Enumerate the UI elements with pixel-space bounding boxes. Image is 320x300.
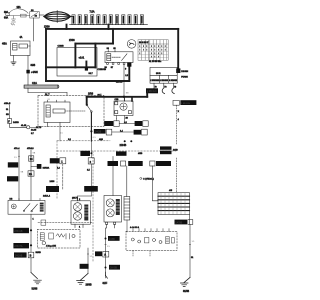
accessory dashed box bottom right (126, 232, 177, 251)
svg-text:2A: 2A (29, 173, 32, 176)
svg-text:2/4GB: 2/4GB (95, 132, 102, 134)
svg-text:AL 30 86 86+: AL 30 86 86+ (149, 60, 162, 63)
fan switch unit (8, 200, 45, 214)
svg-text:C2B: C2B (115, 99, 120, 101)
blower motor right (104, 196, 122, 223)
switch box thick frame (74, 44, 76, 68)
svg-text:24.2B: 24.2B (31, 130, 37, 132)
svg-text:GN/SB: GN/SB (110, 268, 118, 270)
svg-text:2/R8: 2/R8 (88, 93, 94, 96)
relay coil unit (44, 102, 70, 123)
svg-text:3GB: 3GB (31, 65, 36, 67)
svg-text:A: A (104, 253, 106, 257)
svg-text:1 RD/GN: 1 RD/GN (147, 90, 157, 93)
relay pins bottom (107, 63, 109, 65)
junction 2/24B (124, 140, 126, 142)
svg-text:2X08: 2X08 (69, 39, 75, 42)
terminal blob relay 30 (127, 62, 131, 66)
wire below switch (30, 214, 32, 252)
svg-text:2A78B: 2A78B (175, 221, 182, 224)
relay pins top 86 85 (108, 50, 115, 52)
wire relay to connector (27, 56, 29, 70)
accessory dashed box bottom left (38, 222, 93, 224)
wiring loom lens 2X09 (44, 11, 74, 23)
connector 24X08 24X09 (160, 146, 172, 149)
svg-text:+4/GN: +4/GN (31, 72, 38, 74)
splice labels bottom center (105, 238, 107, 240)
terminal blob right (176, 68, 180, 73)
svg-text:2/24B: 2/24B (120, 143, 127, 147)
svg-text:4 Mag 4/35: 4 Mag 4/35 (46, 246, 57, 248)
svg-text:4/5A: 4/5A (2, 43, 7, 46)
wire bus to right terminal (177, 29, 179, 69)
svg-text:1 RD/GN: 1 RD/GN (169, 80, 178, 82)
svg-text:31/9B: 31/9B (183, 291, 189, 293)
svg-text:C/20B: C/20B (58, 46, 65, 48)
svg-text:47A.4: 47A.4 (14, 147, 20, 150)
heater pin down (189, 215, 191, 225)
ground stub left relay (13, 56, 15, 62)
svg-text:60A: 60A (4, 17, 9, 20)
ground bottom left (30, 258, 32, 273)
svg-text:30 86 85 87: 30 86 85 87 (139, 42, 149, 44)
wire to loom (39, 14, 44, 16)
svg-text:+1A1: +1A1 (79, 56, 85, 59)
svg-text:(9/17): (9/17) (72, 198, 78, 200)
svg-text:4 4 4 8 8 4: 4 4 4 8 8 4 (130, 227, 139, 229)
connector row 2/4MB (108, 161, 119, 166)
generator symbol G (127, 40, 136, 49)
relay 2/30 (105, 52, 133, 63)
pump unit 2/33 (131, 97, 133, 101)
hooked wire ends (162, 88, 164, 94)
svg-text:4/5B: 4/5B (138, 153, 143, 155)
switch contact (86, 104, 88, 106)
wire switch output (90, 112, 92, 141)
splice label (146, 88, 158, 93)
svg-text:23341B: 23341B (14, 230, 23, 233)
svg-text:P5/GN: P5/GN (181, 77, 188, 79)
dashed harness boundary (57, 150, 176, 152)
misc wire labels (14, 92, 195, 258)
ground path bottom center-left (87, 248, 89, 274)
wire riser to relay pin 30 (128, 66, 130, 81)
svg-text:30A: 30A (4, 11, 9, 14)
svg-text:DB/GN: DB/GN (181, 71, 188, 73)
svg-text:70: 70 (174, 87, 176, 89)
wire column x91 (90, 141, 92, 158)
connector block right (150, 67, 177, 83)
svg-text:16A: 16A (17, 6, 22, 9)
svg-text:7.5A: 7.5A (90, 11, 95, 14)
svg-text:C (VEDAL): C (VEDAL) (143, 177, 154, 180)
svg-text:24/3B: 24/3B (13, 122, 19, 124)
svg-text:29/9B: 29/9B (86, 284, 92, 286)
junction node (123, 96, 125, 98)
svg-text:24/1AB: 24/1AB (15, 254, 23, 257)
svg-text:2/DOM: 2/DOM (116, 82, 123, 84)
battery feed circuit top left (6, 9, 30, 25)
svg-text:70: 70 (164, 87, 166, 89)
svg-text:1 RD/GN: 1 RD/GN (160, 80, 169, 82)
pin table legend (138, 40, 168, 60)
svg-text:23347A: 23347A (14, 245, 23, 248)
terminal blob switch box (85, 67, 88, 70)
wire to switch box (75, 43, 113, 45)
relay K1 coil circuit left (11, 41, 31, 56)
wire bottom run to relay 30 (46, 80, 129, 82)
thick run to door switch (87, 93, 148, 104)
splice label (94, 129, 106, 134)
svg-text:70: 70 (155, 87, 157, 89)
wire fuse stub left (66, 25, 68, 29)
wire left drop x46 (45, 29, 47, 81)
svg-text:41.4B: 41.4B (21, 125, 27, 127)
right column connector (173, 100, 179, 105)
svg-text:4AB: 4AB (99, 138, 103, 141)
thick supply bus (46, 25, 178, 81)
wire ignition to relay 4A (33, 18, 35, 41)
ignition switch box 30/50 (30, 12, 39, 18)
svg-text:3/8 R: 3/8 R (156, 73, 161, 75)
connector blob +4/GN (26, 70, 29, 74)
wires down to blower (112, 156, 114, 195)
wire relay coil sense (123, 64, 125, 97)
svg-text:2456: 2456 (50, 181, 56, 183)
wire column x63 (60, 158, 66, 164)
ground wire right (189, 224, 191, 277)
wire to module (28, 92, 67, 94)
fuse box rail (70, 24, 148, 26)
svg-text:38/4B: 38/4B (36, 252, 42, 254)
connector 2/4CB pair (104, 121, 113, 126)
svg-text:1 RD/GN: 1 RD/GN (181, 103, 190, 105)
svg-text:B: B (30, 254, 32, 258)
svg-text:24/8B: 24/8B (109, 239, 115, 241)
svg-text:C/2B/HB: C/2B/HB (98, 69, 107, 71)
connector pins down (154, 83, 174, 88)
wire fuse stub right (108, 25, 110, 29)
relay assembly dashed box 2/32 (38, 95, 104, 126)
svg-text:34/13A: 34/13A (43, 166, 50, 169)
svg-text:31/98: 31/98 (32, 288, 38, 290)
svg-text:245A.4: 245A.4 (43, 195, 51, 198)
wire bus drop x113 (112, 29, 114, 44)
svg-text:47B4.8: 47B4.8 (27, 148, 34, 150)
fuses F1-F12 (72, 15, 144, 25)
svg-text:31/F: 31/F (103, 283, 108, 285)
svg-text:4A: 4A (20, 36, 23, 39)
resistor pack (124, 197, 130, 221)
svg-text:1 WS/GN: 1 WS/GN (150, 80, 159, 82)
wire duct down (27, 73, 29, 85)
module box 15/1 (57, 48, 97, 77)
svg-text:4/5A.5: 4/5A.5 (4, 102, 11, 105)
wire pin1 down (59, 127, 61, 141)
pins below right blower (106, 222, 108, 224)
